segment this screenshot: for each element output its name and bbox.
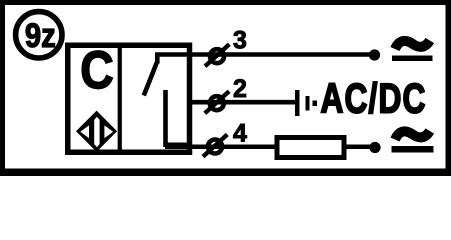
AC supply symbol top (wave) bbox=[395, 41, 430, 50]
pin mark ø (pin 4) bbox=[203, 135, 227, 157]
switch arm (NO contact) bbox=[144, 63, 157, 96]
sensor body divider bbox=[118, 45, 122, 153]
AC supply symbol top (bar) bbox=[392, 56, 433, 62]
AC supply symbol bottom (wave) bbox=[395, 131, 430, 140]
svg-text:9z: 9z bbox=[25, 16, 56, 55]
scheme badge circle 9z bbox=[16, 12, 62, 58]
pin mark ø (pin 3) bbox=[205, 44, 229, 66]
terminal dot (pin 3) bbox=[369, 49, 380, 60]
proximity sensor diamond symbol bbox=[76, 111, 117, 152]
battery long plate bbox=[295, 90, 300, 116]
battery short plate bbox=[306, 96, 310, 111]
sensor body U1 bbox=[68, 45, 190, 152]
pin mark ø (pin 2) bbox=[205, 91, 229, 113]
svg-text:AC/DC: AC/DC bbox=[321, 74, 427, 121]
switch fixed contact bbox=[166, 90, 193, 145]
AC supply symbol bottom (bar) bbox=[392, 146, 434, 153]
svg-text:3: 3 bbox=[233, 27, 247, 55]
svg-text:4: 4 bbox=[233, 120, 247, 148]
terminal dot (pin 4) bbox=[369, 142, 380, 153]
wire pin 3 bbox=[155, 52, 374, 57]
svg-text:2: 2 bbox=[233, 75, 247, 103]
border frame bbox=[0, 0, 451, 176]
svg-text:C: C bbox=[80, 41, 113, 99]
wire pin 2 bbox=[190, 100, 296, 105]
wire pin 4 (from switch to resistor) bbox=[165, 144, 277, 149]
wire pin 4 (resistor to terminal) bbox=[347, 144, 375, 149]
resistor load bbox=[277, 138, 344, 158]
switch contact stub (to pin 3) bbox=[155, 53, 160, 64]
dot separator bbox=[313, 101, 318, 107]
